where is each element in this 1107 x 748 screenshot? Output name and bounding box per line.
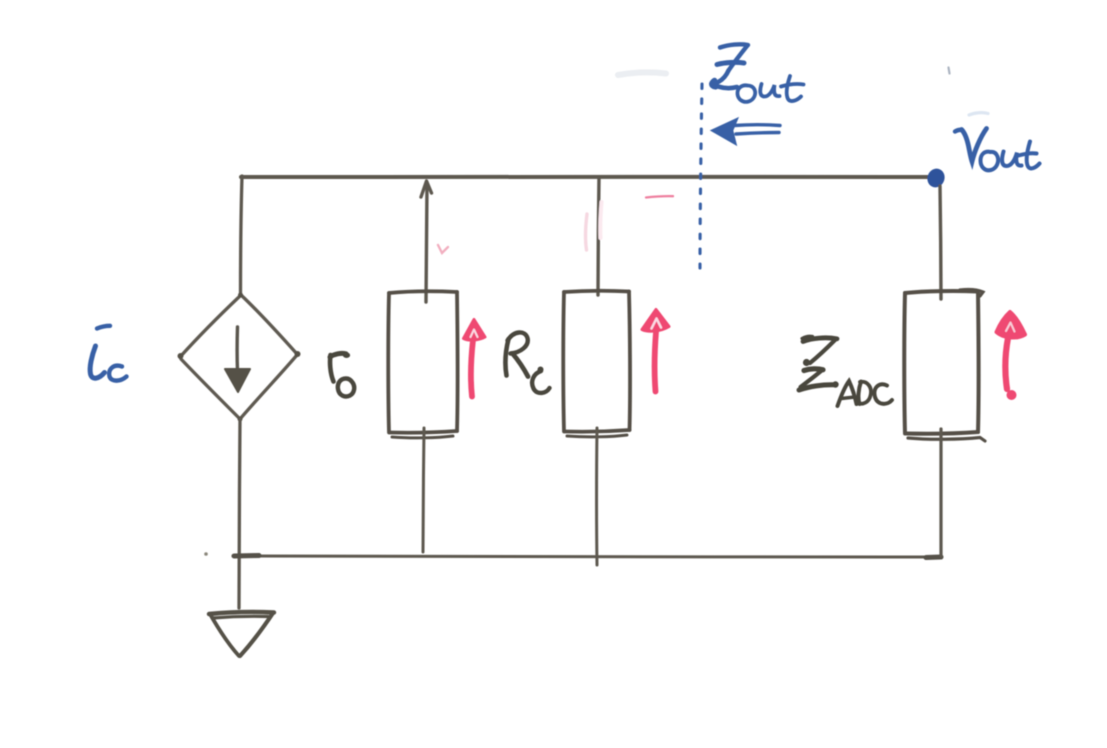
label R_C (dark) [505,332,549,393]
stray faint pink mark near r_o wire [438,245,448,253]
label r_o (dark) [330,352,354,396]
wire r_o top (with up arrow) [426,185,427,302]
faint pink wisp near R_C top wire [586,214,587,250]
label Z_ADC (dark) [799,336,892,406]
net cut line Z_out (blue dashed) [700,84,702,268]
label Z_out (blue) [712,44,804,102]
junction dot left of bottom rail [204,552,208,556]
label i_c (blue) [90,326,126,381]
wire current source to bottom rail and ground [239,419,240,608]
wire Z_ADC bottom [939,429,942,556]
resistor R_C [563,291,630,437]
current source i_c (dependent, diamond) [178,293,301,422]
current arrow annotation at r_o (pink) [464,320,486,397]
current arrow annotation at R_C (pink) [642,310,669,392]
faint smudge left of Z_out [618,72,666,75]
current arrow annotation at Z_ADC (pink) [997,312,1026,400]
wire Vout drop to Z_ADC [940,186,941,299]
bottom rail right elbow [926,555,941,561]
faint speck above Vout wire [949,68,950,74]
ground [209,612,274,656]
wire left drop (top rail to current source) [241,176,243,294]
label Vout (blue) [955,129,1040,171]
impedance Z_ADC [904,290,985,441]
node Vout dot [925,166,947,190]
wire r_o bottom [423,428,424,552]
wire bottom rail [233,556,940,557]
current source arrow (down) [235,327,239,371]
wire R_C top [598,177,599,295]
bottom rail left overlap [234,553,259,559]
stray pink dash near top rail [646,196,673,197]
wire R_C bottom [595,428,598,565]
wire top rail [241,174,931,179]
faint smudge above Vout [969,113,988,115]
resistor r_o [388,291,457,438]
arrow Z_out (blue, pointing left) [712,119,781,145]
